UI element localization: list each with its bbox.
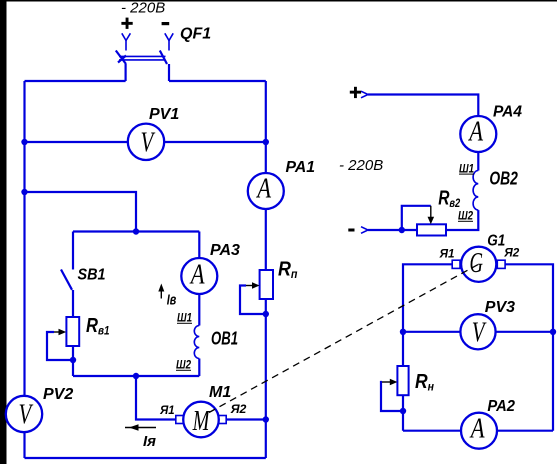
svg-text:V: V	[472, 317, 487, 348]
svg-text:- 220В: - 220В	[121, 0, 165, 17]
svg-text:Ш2: Ш2	[176, 358, 191, 372]
node: Rv1 wiper junction	[70, 357, 76, 363]
breaker cross mark	[118, 56, 126, 63]
node: Rn wiper junction	[400, 408, 406, 414]
label Sh1 motor	[177, 311, 192, 325]
svg-text:Я2: Я2	[503, 246, 519, 260]
page border top line	[0, 0, 557, 2]
svg-text:A: A	[256, 174, 272, 205]
wire: Rv2 to minus terminal	[368, 229, 417, 231]
wire: field branch top from left rail	[25, 192, 137, 232]
brush right	[219, 416, 227, 424]
svg-text:PA3: PA3	[210, 242, 240, 259]
ammeter PA3	[181, 258, 217, 294]
svg-text:Я1: Я1	[439, 247, 455, 261]
wire: left rail	[23, 81, 25, 458]
wire: OB2 to Rv2	[446, 210, 478, 230]
svg-text:Я2: Я2	[230, 402, 247, 416]
svg-text:A: A	[469, 414, 485, 445]
label Sh2 motor	[176, 358, 191, 372]
wire: generator field plus lead	[368, 95, 478, 171]
wire: Rp wiper loop	[240, 286, 266, 315]
arrow: Rp wiper	[246, 282, 260, 289]
svg-text:SB1: SB1	[78, 267, 106, 284]
wire: motor right lead	[226, 418, 266, 420]
svg-text:ОВ1: ОВ1	[211, 329, 238, 349]
wire: field loop top horizontal	[73, 230, 199, 232]
svg-text:Я1: Я1	[159, 403, 175, 417]
wire: PV1 measuring wire	[25, 141, 266, 143]
wire: PA3 branch vertical	[198, 232, 200, 326]
node: PV3 left junction	[400, 329, 406, 335]
wire: right rail motor loop	[265, 81, 267, 458]
ammeter PA4	[460, 116, 496, 152]
svg-text:ОВ2: ОВ2	[489, 168, 518, 188]
label Sh2 generator	[458, 209, 473, 223]
generator G1	[452, 247, 505, 282]
wire: Rv1 wiper loop	[47, 332, 73, 360]
label Sh1 generator	[459, 161, 474, 175]
svg-text:V: V	[141, 127, 156, 158]
voltmeter PV1	[128, 124, 164, 160]
svg-text:A: A	[189, 260, 205, 291]
arrow: current Iv	[158, 284, 164, 299]
wire: SB1 upper lead	[72, 232, 74, 270]
svg-text:PA2: PA2	[487, 398, 515, 415]
svg-text:- 220В: - 220В	[339, 157, 383, 174]
wire: bottom wire motor loop	[25, 457, 266, 459]
label: minus right	[348, 229, 354, 232]
svg-text:Ш2: Ш2	[458, 209, 473, 223]
voltmeter PV2	[6, 396, 42, 432]
node: Rv2 wiper junction	[399, 227, 405, 233]
svg-text:G1: G1	[487, 233, 505, 250]
wire: Rv2 wiper loop	[402, 206, 431, 230]
label: plus top	[121, 18, 132, 29]
node: left rail / PV1 wire junction	[21, 139, 27, 145]
svg-text:V: V	[19, 400, 34, 431]
terminal fork left	[122, 33, 131, 40]
svg-text:QF1: QF1	[180, 26, 211, 43]
arrow: current Iya	[125, 424, 156, 430]
wire: link field loop to armature wire	[136, 376, 176, 420]
motor M1	[176, 402, 226, 438]
ammeter PA2	[461, 413, 497, 449]
wire: generator load bottom wire	[403, 430, 553, 432]
wire: field loop bottom horizontal	[73, 375, 199, 377]
node: PV3 right junction	[550, 329, 556, 335]
terminal fork plus (generator field)	[361, 91, 368, 98]
wire: G1 right lead	[505, 264, 553, 430]
svg-text:PA4: PA4	[493, 104, 522, 121]
svg-text:PV2: PV2	[43, 386, 73, 403]
breaker QF1	[116, 33, 173, 81]
svg-text:Ш1: Ш1	[459, 161, 474, 175]
svg-text:A: A	[468, 117, 484, 148]
svg-text:G: G	[470, 248, 484, 279]
voltmeter PV3	[460, 314, 495, 349]
arrow: Rv1 wiper	[54, 329, 66, 336]
ammeter PA1	[248, 173, 284, 209]
svg-text:Ш1: Ш1	[177, 311, 192, 325]
right pole lead	[168, 64, 170, 81]
wire: Rn wiper loop	[381, 382, 403, 411]
terminal fork minus (generator field)	[361, 227, 368, 234]
terminal fork right	[165, 33, 173, 40]
node: Rp wiper junction	[263, 311, 269, 317]
resistor Rv2 body	[417, 224, 446, 235]
mechanical coupling dashed line M1-G1	[209, 265, 478, 413]
wire: top wire left segment	[25, 80, 126, 82]
label: plus right	[350, 87, 361, 98]
page border left bar	[0, 0, 7, 464]
label: minus top	[162, 22, 170, 25]
svg-text:PV1: PV1	[149, 106, 179, 123]
wire: OB1 to bottom horizontal	[198, 359, 200, 377]
inductor OB1 field winding	[194, 326, 199, 359]
svg-text:Iв: Iв	[167, 292, 177, 309]
wire: G1 left lead	[403, 264, 452, 430]
node: motor armature right junction	[263, 416, 269, 422]
brush left	[176, 416, 184, 424]
resistor Rn body	[397, 366, 408, 395]
svg-text:Iя: Iя	[143, 433, 156, 450]
switch SB1 blade	[61, 270, 72, 290]
svg-text:PV3: PV3	[485, 299, 515, 316]
brush left	[452, 260, 460, 268]
resistor Rv1 body	[66, 317, 79, 346]
arrow: Rv2 wiper	[428, 206, 435, 225]
wire: top wire right segment	[169, 80, 266, 82]
brush right	[497, 260, 505, 268]
resistor Rp body	[260, 270, 273, 299]
wire: PV3 measuring wire	[403, 331, 553, 333]
wire: SB1 lower lead to Rv1	[72, 290, 74, 376]
node: field loop bottom junction	[133, 373, 139, 379]
node: left rail / field branch junction	[21, 189, 27, 195]
inductor OB2 field winding	[473, 171, 478, 211]
left pole lead	[124, 64, 126, 81]
svg-text:М1: М1	[209, 384, 231, 401]
node: field loop top junction	[133, 228, 139, 234]
arrow: Rn wiper	[382, 379, 397, 386]
svg-text:PA1: PA1	[286, 159, 316, 176]
right blade	[160, 51, 167, 65]
linkage double bar	[119, 55, 166, 57]
node: right rail / PV1 wire junction	[263, 139, 269, 145]
svg-text:M: M	[192, 406, 211, 437]
left blade	[116, 51, 126, 65]
